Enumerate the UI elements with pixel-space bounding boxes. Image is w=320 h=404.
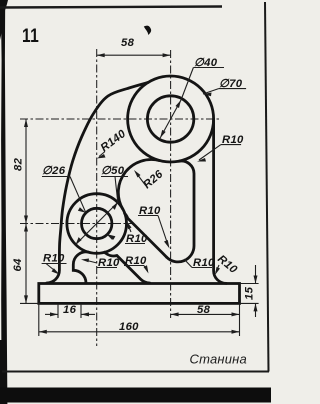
dim 64 left xyxy=(25,224,27,304)
svg-text:Станина: Станина xyxy=(190,352,247,367)
centerline horizontal big circle / 82 extension xyxy=(20,118,220,120)
svg-text:∅50: ∅50 xyxy=(101,165,125,177)
svg-text:160: 160 xyxy=(119,321,139,333)
svg-text:58: 58 xyxy=(121,37,135,49)
ink blob artifact xyxy=(144,26,151,35)
strut upper edge + R10 fillet to small boss xyxy=(125,214,167,258)
svg-text:16: 16 xyxy=(63,304,77,316)
left profile R140 arc + R10 base fillet xyxy=(47,83,148,284)
page bottom black band xyxy=(0,388,271,403)
svg-text:82: 82 xyxy=(13,157,25,171)
lower-left opening edge + fillets xyxy=(73,252,89,283)
centerline vertical big circle xyxy=(170,50,172,318)
dim 15 right xyxy=(240,283,259,285)
opening right edge + R10 top fillet + R10 bottom corner xyxy=(167,161,194,262)
svg-text:11: 11 xyxy=(22,25,39,47)
frame top line xyxy=(0,7,222,8)
small bore circle D26 xyxy=(82,208,112,238)
base plate xyxy=(39,284,240,304)
page left black edge xyxy=(1,0,8,404)
dim 160 bottom xyxy=(38,304,40,336)
svg-text:15: 15 xyxy=(244,286,256,300)
frame right line xyxy=(265,2,269,372)
right outer edge + R10 fillet to base xyxy=(214,119,227,283)
small boss circle D50 xyxy=(67,194,127,254)
strut lower edge + fillets xyxy=(105,252,150,283)
svg-text:64: 64 xyxy=(12,258,24,272)
dim 16 bottom xyxy=(57,304,59,318)
centerline vertical small circle xyxy=(96,49,98,346)
centerline horizontal small circle / 82-64 extension xyxy=(20,223,132,225)
dim 82 left xyxy=(25,119,27,224)
dim 58 top xyxy=(97,54,171,56)
big bore circle D40 xyxy=(147,96,193,142)
frame bottom line xyxy=(2,371,269,373)
big boss circle D70 xyxy=(128,76,214,162)
R26 fillet arc between bosses xyxy=(118,160,159,209)
svg-text:58: 58 xyxy=(197,304,211,316)
svg-text:∅26: ∅26 xyxy=(42,165,66,177)
dim 58 bottom xyxy=(171,313,240,315)
svg-text:R10: R10 xyxy=(43,253,65,265)
